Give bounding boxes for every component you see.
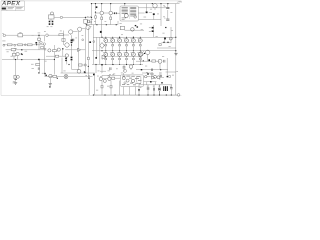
dark mark M3: [46, 75, 47, 76]
label text 70: [170, 85, 172, 88]
label +75V: [177, 2, 183, 4]
label text 21: [107, 85, 109, 88]
wire inductor stem: [130, 65, 132, 71]
wire vert x63.5: [63, 31, 65, 46]
label text 62: [85, 74, 87, 77]
title block divider: [1, 6, 24, 10]
wire bot stub g: [138, 84, 140, 95]
inductor L1: [129, 65, 133, 69]
junction dot 28: [160, 69, 161, 70]
transistor Q23: [131, 28, 135, 32]
capacitor C1: [49, 21, 54, 23]
wire bottom rail: [93, 94, 177, 96]
label text 41: [176, 70, 178, 73]
wire r20 stem: [38, 60, 40, 73]
label text 56: [11, 55, 13, 58]
resistor R27: [101, 85, 103, 88]
wire output V- rail: [92, 64, 143, 66]
junction dot 15: [119, 37, 120, 38]
triangle U5: [152, 76, 155, 79]
resistor R29: [84, 19, 87, 23]
wire zobel stem: [123, 65, 125, 72]
label text 16: [150, 8, 152, 11]
node junction C: [3, 44, 5, 46]
dark mark M7: [38, 72, 39, 73]
wire bottom module line: [102, 75, 121, 78]
wire input pair path: [54, 34, 69, 36]
transistor Q10: [139, 52, 143, 56]
wire vert x88: [87, 27, 89, 78]
transistor QN3: [117, 51, 126, 65]
transistor QN4: [124, 51, 133, 65]
node junction K: [82, 39, 84, 41]
transistor Q1: [100, 11, 104, 15]
capacitor C8 zobel: [123, 67, 126, 68]
label text 32: [146, 71, 148, 74]
transistor Q20: [49, 74, 52, 77]
label text 1: [19, 31, 21, 34]
label text 30: [116, 68, 118, 71]
wire vert x78: [78, 31, 80, 70]
label text 64: [100, 75, 102, 78]
wire left servo stem: [15, 60, 17, 76]
junction dot 45: [88, 78, 89, 79]
label text 34: [169, 45, 171, 48]
diode D29: [167, 42, 168, 43]
label text 58: [121, 72, 123, 75]
transistor Q7: [16, 52, 19, 55]
junction dot 47: [95, 64, 96, 65]
label text 9: [31, 63, 34, 66]
wire VAS column c: [99, 37, 101, 64]
resistor R7: [55, 55, 58, 57]
wire bias vert a: [140, 56, 142, 61]
driver triangle U2: [102, 55, 106, 59]
transistor QN1: [103, 51, 112, 65]
label text 52: [97, 75, 99, 78]
label text 17: [157, 13, 159, 16]
title block box: [1, 1, 24, 11]
wire fb gnd stem: [15, 79, 17, 83]
label text 5: [50, 25, 52, 28]
wire trim stem: [50, 19, 52, 21]
wire top emitter b: [101, 15, 103, 25]
label text 66: [13, 80, 15, 83]
junction node N: [38, 59, 40, 60]
relay circle K1: [145, 75, 147, 77]
diode D16: [84, 71, 85, 72]
label text 22: [63, 70, 65, 73]
diode D10b: [65, 60, 67, 61]
capacitor C7: [108, 67, 112, 71]
junction dot 11: [95, 3, 96, 4]
dark mark M8: [144, 53, 145, 54]
wire driver emitter: [61, 72, 95, 74]
ground G2: [49, 84, 52, 86]
resistor R22: [110, 17, 112, 20]
diode D20: [138, 89, 140, 91]
capacitor C2: [49, 23, 54, 25]
wire vert x161: [160, 4, 162, 26]
input jack J1: [3, 34, 6, 37]
diode D28: [163, 42, 164, 43]
wire bot stub f: [130, 87, 136, 95]
resistor R26: [152, 60, 156, 62]
meter M2: [124, 69, 127, 72]
junction dot 14: [101, 50, 102, 51]
diode D3: [153, 13, 155, 15]
transistor Q3: [69, 30, 73, 34]
label text 47: [2, 32, 4, 35]
wire fb cluster vert: [43, 35, 45, 73]
label text 2: [2, 40, 5, 43]
junction dot 42: [101, 37, 102, 38]
label text 8: [91, 18, 93, 21]
transistor Q2: [109, 11, 113, 15]
junction dot 41: [175, 50, 176, 51]
terminal J2: [60, 16, 62, 18]
logo APEX: [1, 1, 24, 8]
label text 33: [139, 56, 141, 59]
junction dot 24: [22, 54, 23, 55]
transistor Q15: [153, 3, 157, 7]
wire bot stub d: [119, 81, 121, 95]
label text 11: [13, 82, 15, 85]
label text 29: [98, 70, 100, 73]
junction dot 39: [54, 59, 55, 60]
junction dot 34: [171, 94, 172, 95]
label text 12: [149, 26, 151, 29]
transistor QP2: [110, 37, 119, 52]
label text 61: [42, 72, 44, 75]
transistor Q18: [108, 77, 111, 80]
wire vert x85.4: [84, 17, 86, 73]
resistor R28: [110, 85, 112, 88]
label text 67: [147, 85, 149, 88]
dark mark M1: [49, 86, 50, 87]
dark mark M4: [44, 73, 45, 74]
dark mark M5: [93, 74, 95, 76]
resistor R7b: [53, 50, 57, 52]
capacitor C6: [62, 38, 65, 41]
node junction P: [84, 64, 86, 66]
transistor Q17: [99, 77, 102, 80]
diode D26: [135, 25, 137, 26]
diode D6: [152, 30, 154, 32]
resistor R32: [120, 26, 124, 29]
thermistor TH1: [163, 86, 168, 91]
transistor QP5: [131, 37, 140, 52]
transistor Q8: [48, 49, 51, 52]
wire top +V rail: [92, 3, 180, 5]
diode D15: [21, 53, 22, 54]
label text 27: [82, 34, 84, 37]
wire feedback row: [3, 44, 44, 46]
capacitor C13: [164, 60, 165, 63]
transistor Q14: [157, 76, 160, 79]
transistor Q6: [65, 43, 69, 47]
label text 31: [172, 74, 174, 77]
junction dot 8: [88, 66, 89, 67]
label text 60: [113, 73, 115, 76]
junction dot 43: [71, 44, 72, 45]
label text 28: [56, 50, 58, 53]
wire top emitter a: [95, 13, 97, 25]
resistor R2: [18, 34, 23, 37]
label text 6: [87, 15, 89, 18]
terminal J3: [177, 94, 180, 97]
transistor QP1: [103, 37, 112, 52]
transistor QN2: [110, 51, 119, 65]
label text 48: [105, 20, 107, 23]
wire output mid rail: [92, 50, 176, 52]
wire vert x171: [170, 27, 172, 43]
label text 55: [44, 30, 46, 33]
wire vert x167 low: [160, 58, 176, 76]
wire right sense: [157, 37, 176, 48]
wire block feed: [117, 21, 119, 25]
resistor R6: [59, 34, 64, 36]
ground G1: [14, 79, 17, 84]
wire top emitter c: [110, 15, 112, 25]
junction dot 27: [143, 60, 144, 61]
wire right cap feed: [138, 4, 168, 19]
resistor R31: [79, 64, 82, 66]
resistor R20: [36, 63, 40, 65]
diode D30: [141, 69, 143, 70]
IC module U4: [121, 73, 144, 87]
label text 18: [162, 55, 164, 58]
dark mark M6: [161, 82, 162, 83]
node junction L: [93, 41, 95, 43]
resistor R10: [11, 49, 15, 51]
label text 71: [140, 86, 142, 89]
diode D22: [158, 85, 160, 95]
label text 10: [32, 67, 34, 70]
junction dot 7: [85, 17, 86, 18]
capacitor C17: [160, 76, 162, 77]
wire speaker vert a: [96, 65, 106, 74]
label text 63: [88, 74, 90, 77]
diode D8: [71, 42, 73, 44]
junction dot 32: [159, 94, 160, 95]
label text 14: [162, 32, 164, 35]
transistor Q12: [158, 59, 162, 63]
resistor R30: [88, 20, 90, 23]
junction dot 36: [114, 94, 115, 95]
resistor R5: [27, 44, 32, 46]
label text 23: [45, 60, 47, 63]
node junction B: [24, 44, 26, 46]
junction dot 40: [175, 37, 176, 38]
junction dot 21: [167, 3, 168, 4]
resistor R12: [12, 53, 15, 56]
junction dot 25: [84, 72, 85, 73]
label text 49: [94, 20, 96, 23]
wire left bias drop a: [6, 50, 45, 60]
circle D25: [168, 75, 170, 77]
wire vert x54.4 upper: [53, 45, 55, 56]
node junction G: [14, 44, 16, 46]
label text 15: [144, 16, 147, 19]
label text 39: [163, 16, 165, 19]
diode D9: [71, 57, 73, 59]
diode D11: [89, 41, 91, 43]
junction dot 37: [93, 94, 94, 95]
label text 50: [60, 30, 62, 33]
circle K2: [151, 73, 153, 75]
feedback box R8: [41, 47, 44, 49]
junction dot 29: [138, 94, 139, 95]
transistor Q19: [103, 79, 106, 82]
junction dot 3: [96, 24, 97, 25]
wire bot stub b: [101, 81, 103, 95]
wire vert x153.5: [153, 25, 155, 37]
transistor Q5: [86, 25, 90, 29]
label text 57: [151, 75, 153, 78]
label text 36: [120, 22, 122, 25]
label text 35: [156, 35, 158, 38]
label text 24: [25, 50, 28, 53]
wire top row drop c: [110, 4, 112, 11]
label text 7: [90, 15, 92, 18]
label text 45: [109, 73, 111, 76]
wire mid rail upper: [86, 24, 118, 26]
label text 65: [109, 75, 111, 78]
diode D4: [152, 27, 154, 29]
driver triangle U6: [78, 48, 81, 51]
diode D12: [95, 57, 97, 59]
transistor QP4: [124, 37, 133, 52]
diode D21: [153, 85, 154, 95]
feedback cap C4: [45, 49, 47, 50]
wire module out: [142, 72, 164, 85]
junction dot 38: [15, 59, 16, 60]
title cell text 2: [16, 7, 23, 9]
resistor R34: [159, 44, 161, 46]
capacitor C10: [151, 69, 152, 72]
capacitor C14: [147, 85, 150, 95]
diode D13: [35, 42, 37, 44]
IC module U3: [120, 6, 138, 21]
label text 46: [112, 73, 114, 76]
dark mark M2: [62, 48, 63, 49]
diode D2: [146, 11, 148, 13]
transistor QN6: [137, 51, 142, 65]
junction dot 22: [91, 17, 92, 18]
junction dot 19: [152, 3, 153, 4]
diode D14: [148, 59, 150, 61]
node junction M: [90, 21, 92, 23]
junction dot 23: [36, 44, 37, 45]
wire output V+ rail: [93, 36, 176, 38]
junction dot 4: [106, 24, 107, 25]
wire bot stub c: [110, 81, 112, 96]
label text 20: [96, 89, 98, 92]
junction dot 5: [116, 24, 117, 25]
junction node J: [101, 64, 103, 65]
diode D9b: [65, 58, 67, 59]
wire input pair up: [71, 8, 155, 35]
junction node E: [147, 73, 149, 75]
wire bias vert c: [142, 51, 144, 52]
transistor QP3: [117, 37, 126, 52]
wire bot caps bus: [139, 84, 172, 86]
resistor R4: [18, 44, 23, 46]
junction dot 2: [21, 59, 22, 60]
capacitor C16: [38, 67, 39, 70]
junction dot 31: [153, 94, 154, 95]
wire input coupling line: [54, 16, 91, 18]
label text 68: [153, 85, 155, 88]
diode D10: [71, 59, 73, 61]
title cell model: [2, 8, 6, 10]
label text 40: [171, 29, 173, 32]
wire top row drop b: [101, 4, 103, 11]
transistor Q22: [17, 76, 20, 79]
label text 38: [170, 11, 172, 14]
junction node D: [100, 31, 102, 33]
wire fb vert x36.6: [37, 35, 39, 50]
junction dot 33: [166, 94, 167, 95]
border frame: [1, 1, 181, 96]
capacitor C15: [170, 85, 173, 95]
transistor Q13: [154, 75, 157, 78]
ground G3: [174, 53, 177, 55]
diode D1: [96, 6, 98, 8]
title cell text 1: [8, 7, 14, 9]
transistor Q9: [65, 54, 68, 57]
wire bias row: [46, 50, 85, 56]
capacitor C9 servo: [64, 75, 68, 79]
svg-text:+75V: +75V: [177, 2, 182, 4]
wire top row drop a: [95, 4, 97, 10]
wire bias vert b: [147, 55, 149, 62]
wire long ground return: [2, 56, 54, 75]
wire bot stub a: [94, 73, 96, 95]
label text 25: [32, 34, 34, 37]
wire servo gnd stem: [50, 78, 52, 84]
wire speaker vert b: [101, 65, 104, 74]
label text 19: [145, 65, 147, 68]
wire servo line: [45, 74, 93, 77]
resistor R3: [7, 44, 12, 46]
transistor Q8b: [57, 48, 60, 51]
wire block lower rail: [125, 29, 145, 31]
wire top row drop d: [124, 4, 126, 6]
resistor R24: [112, 77, 115, 79]
junction dot 26: [101, 64, 102, 65]
junction dot 13: [110, 3, 111, 4]
wire mid drop x62: [62, 58, 84, 74]
junction dot 1: [95, 11, 96, 12]
junction dot 12: [101, 3, 102, 4]
label text 59: [132, 72, 134, 75]
junction dot 6: [86, 24, 87, 25]
label text 53: [108, 75, 110, 78]
label text 42: [140, 23, 142, 26]
transistor Q4: [78, 27, 82, 31]
resistor R25: [53, 75, 57, 77]
wire right bus: [175, 4, 177, 95]
resistor R13: [14, 75, 16, 78]
diode network D5: [100, 43, 105, 49]
junction dot 20: [160, 3, 161, 4]
wire VAS column a: [93, 25, 101, 65]
junction dot 44: [57, 78, 58, 79]
capacitor C5: [73, 39, 74, 42]
wire protection row1: [136, 60, 159, 62]
